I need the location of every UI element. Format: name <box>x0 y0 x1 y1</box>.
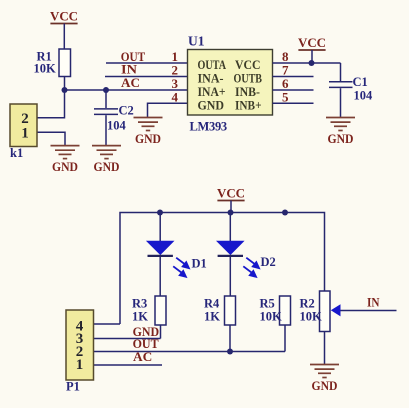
svg-text:INB+: INB+ <box>235 98 262 112</box>
svg-text:5: 5 <box>282 89 289 104</box>
svg-text:10K: 10K <box>260 310 283 324</box>
svg-text:104: 104 <box>354 89 374 103</box>
svg-text:AC: AC <box>133 350 152 364</box>
svg-text:D1: D1 <box>192 257 207 271</box>
svg-text:1K: 1K <box>132 310 148 324</box>
svg-text:VCC: VCC <box>235 58 261 72</box>
svg-text:1: 1 <box>76 357 84 373</box>
svg-text:104: 104 <box>107 119 127 133</box>
svg-text:C1: C1 <box>353 75 368 89</box>
svg-text:k1: k1 <box>10 146 23 160</box>
svg-text:R3: R3 <box>132 297 147 311</box>
svg-text:LM393: LM393 <box>190 119 227 133</box>
svg-text:IN: IN <box>121 63 137 77</box>
svg-text:D2: D2 <box>261 255 276 269</box>
svg-text:INB-: INB- <box>235 85 260 99</box>
svg-text:R2: R2 <box>300 297 315 311</box>
svg-text:OUT: OUT <box>133 337 160 351</box>
svg-text:10K: 10K <box>34 62 57 76</box>
svg-text:AC: AC <box>121 76 140 90</box>
svg-text:IN: IN <box>367 296 380 310</box>
svg-text:GND: GND <box>198 98 225 112</box>
svg-text:C2: C2 <box>119 104 134 118</box>
svg-text:U1: U1 <box>188 34 205 49</box>
svg-text:1: 1 <box>21 125 29 141</box>
svg-text:1K: 1K <box>204 310 220 324</box>
svg-text:4: 4 <box>172 89 179 104</box>
svg-text:10K: 10K <box>300 310 323 324</box>
svg-text:R5: R5 <box>260 297 275 311</box>
svg-text:OUTA: OUTA <box>198 58 227 72</box>
svg-text:INA+: INA+ <box>198 85 226 99</box>
svg-text:P1: P1 <box>66 380 80 394</box>
svg-text:OUTB: OUTB <box>234 72 263 86</box>
svg-text:INA-: INA- <box>198 72 224 86</box>
svg-text:R4: R4 <box>204 297 220 311</box>
